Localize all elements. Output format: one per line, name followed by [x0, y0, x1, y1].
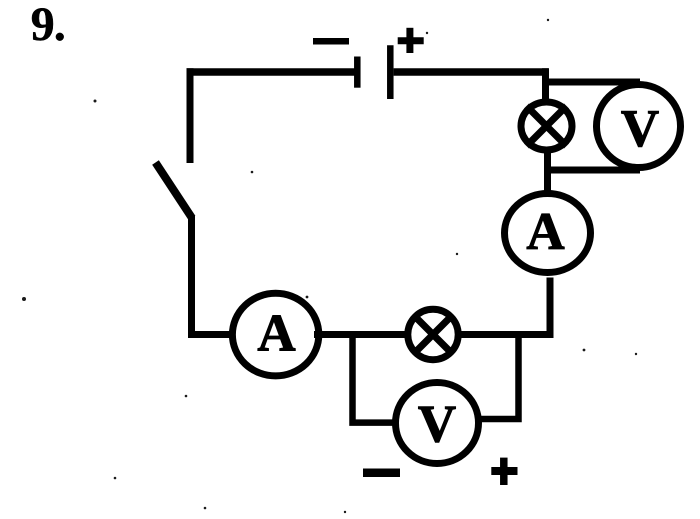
- lamp L2: [408, 309, 458, 359]
- wire V1 top branch: [542, 79, 640, 86]
- wire V2 left branch: [353, 331, 398, 423]
- voltmeter V2: [396, 383, 479, 464]
- problem number 9.: [32, 8, 53, 40]
- wire bottom middle (A1 to lamp L2): [314, 331, 409, 338]
- wire right vertical (bottom corner to A2): [547, 278, 554, 339]
- voltmeter V1: [597, 85, 681, 168]
- wire top-right horizontal: [394, 68, 549, 76]
- battery B1 left plate (negative): [354, 57, 361, 88]
- wire A2 to lamp L1: [544, 150, 551, 192]
- wire left vertical lower: [188, 216, 195, 338]
- ammeter A1: [232, 293, 318, 376]
- wire V1 bottom branch: [544, 167, 640, 174]
- wire top-left horizontal: [187, 68, 355, 76]
- lamp L1: [521, 102, 572, 150]
- wire bottom right (lamp L2 to corner): [457, 331, 551, 338]
- wire bottom-left horizontal: [188, 331, 234, 338]
- wire above lamp L1: [542, 68, 549, 102]
- battery B1 plus label: [398, 28, 424, 53]
- plus label (bottom voltmeter): [491, 458, 517, 485]
- ammeter A2: [505, 194, 591, 273]
- switch S1 open blade: [156, 163, 193, 219]
- battery B1 minus label: [313, 38, 349, 45]
- minus label (bottom voltmeter): [363, 469, 400, 478]
- wire left vertical upper: [187, 68, 194, 163]
- battery B1 right plate (positive): [387, 45, 394, 99]
- wire V2 right branch: [477, 331, 519, 419]
